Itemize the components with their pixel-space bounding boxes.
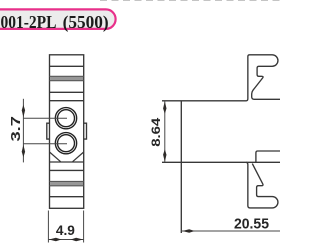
dimension 20.55: dimension line (runs to image edge) xyxy=(182,230,280,232)
body left edge + 20.55 extension xyxy=(180,101,182,233)
dimension 4.9: extension line right xyxy=(83,211,85,243)
dashed separator line (cut off at top edge) xyxy=(100,0,280,1)
dimension 8.64: dimension line xyxy=(164,101,166,162)
contact hole 2 outer xyxy=(55,133,76,154)
segment line 4 xyxy=(50,161,84,163)
gray band lower xyxy=(50,181,83,186)
connector body outline xyxy=(50,55,84,209)
dimension 8.64: top arrow xyxy=(163,101,166,114)
dimension 4.9: extension line left xyxy=(47,211,49,243)
dimension 3.7: lower arrow xyxy=(22,145,25,158)
dimension 4.9: right arrow xyxy=(71,238,84,241)
right ear tab xyxy=(84,123,87,139)
svg-text:001-2PL: 001-2PL xyxy=(1,12,57,32)
chamfer line right xyxy=(73,152,84,162)
svg-text:(5500): (5500) xyxy=(63,12,109,33)
dimension 3.7: leader line lower xyxy=(23,143,67,145)
segment line 2 xyxy=(50,91,84,93)
bottom snap clip: body xyxy=(246,162,278,208)
top edge + top snap clip xyxy=(162,55,280,101)
svg-text:4.9: 4.9 xyxy=(56,223,75,238)
contact hole 1 outer xyxy=(55,108,76,129)
svg-text:20.55: 20.55 xyxy=(234,217,269,233)
chamfer line left xyxy=(50,152,61,162)
dimension 4.9: dimension line xyxy=(48,239,83,241)
contact hole 1 inner xyxy=(58,110,75,127)
gray band upper xyxy=(50,76,83,81)
part-number label bubble (cut at left edge) xyxy=(0,9,116,29)
svg-text:8.64: 8.64 xyxy=(149,117,163,146)
dimension 4.9: left arrow xyxy=(49,238,62,241)
segment line 1 xyxy=(50,65,84,67)
dimension 3.7: upper arrow xyxy=(22,105,25,118)
dimension 8.64: bottom arrow xyxy=(163,149,166,162)
body bottom edge (runs to image edge) xyxy=(162,161,280,163)
segment line 5 xyxy=(50,169,84,171)
segment line 3 xyxy=(50,100,84,102)
dimension 3.7: leader line upper xyxy=(23,117,67,119)
bottom snap clip: hook line xyxy=(256,151,280,162)
segment line 6 xyxy=(50,196,84,198)
contact hole 2 inner xyxy=(58,135,75,152)
svg-text:3.7: 3.7 xyxy=(9,116,23,142)
left ear tab xyxy=(47,123,50,139)
dimension 20.55: left arrow xyxy=(182,229,195,232)
dimension 3.7: dimension line xyxy=(22,99,24,163)
